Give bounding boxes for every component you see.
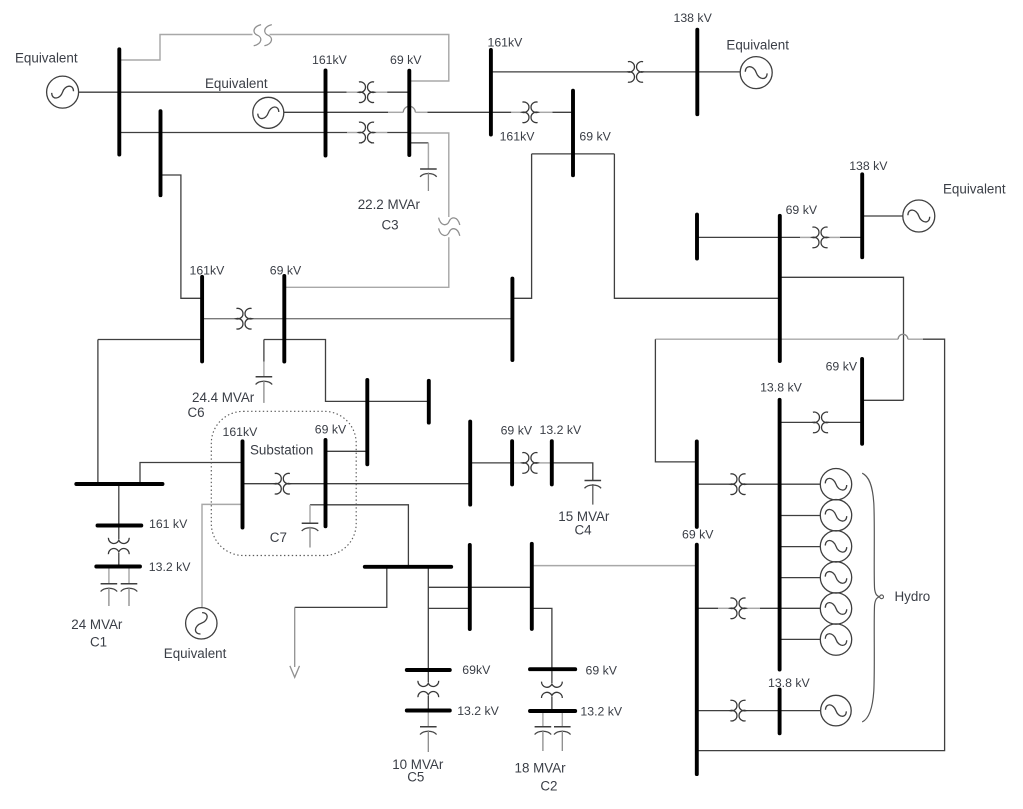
svg-text:C1: C1 <box>90 635 107 650</box>
svg-text:24 MVAr: 24 MVAr <box>71 617 123 632</box>
svg-text:C5: C5 <box>407 770 424 785</box>
svg-text:22.2 MVAr: 22.2 MVAr <box>358 197 421 212</box>
svg-text:69 kV: 69 kV <box>826 360 858 374</box>
svg-text:13.2 kV: 13.2 kV <box>149 560 191 574</box>
svg-text:69 kV: 69 kV <box>579 129 611 143</box>
svg-text:69 kV: 69 kV <box>315 423 347 437</box>
svg-text:69 kV: 69 kV <box>586 663 618 677</box>
svg-text:69 kV: 69 kV <box>682 528 714 542</box>
svg-text:Equivalent: Equivalent <box>15 50 78 65</box>
svg-text:161kV: 161kV <box>488 35 524 49</box>
svg-text:Hydro: Hydro <box>895 589 931 604</box>
svg-text:Substation: Substation <box>250 443 313 458</box>
svg-text:13.8 kV: 13.8 kV <box>768 676 810 690</box>
svg-text:13.2 kV: 13.2 kV <box>580 705 622 719</box>
svg-text:C3: C3 <box>382 218 399 233</box>
svg-text:C4: C4 <box>575 523 593 538</box>
svg-text:C7: C7 <box>270 530 287 545</box>
svg-text:161kV: 161kV <box>223 425 259 439</box>
svg-text:161kV: 161kV <box>500 129 536 143</box>
svg-text:138 kV: 138 kV <box>849 159 888 173</box>
svg-text:69 kV: 69 kV <box>390 53 422 67</box>
svg-text:69 kV: 69 kV <box>786 203 818 217</box>
svg-text:161kV: 161kV <box>312 53 348 67</box>
svg-text:C6: C6 <box>188 405 205 420</box>
svg-text:161kV: 161kV <box>190 263 226 277</box>
svg-text:13.2 kV: 13.2 kV <box>540 423 582 437</box>
svg-text:13.2 kV: 13.2 kV <box>457 704 499 718</box>
svg-text:C2: C2 <box>540 779 557 794</box>
svg-text:Equivalent: Equivalent <box>943 181 1006 196</box>
svg-text:18 MVAr: 18 MVAr <box>515 761 567 776</box>
svg-text:Equivalent: Equivalent <box>205 76 268 91</box>
svg-text:Equivalent: Equivalent <box>164 646 227 661</box>
svg-text:69 kV: 69 kV <box>501 424 533 438</box>
svg-text:13.8 kV: 13.8 kV <box>760 380 802 394</box>
svg-text:69 kV: 69 kV <box>270 263 302 277</box>
svg-text:Equivalent: Equivalent <box>726 38 789 53</box>
svg-text:138 kV: 138 kV <box>674 11 713 25</box>
svg-text:69kV: 69kV <box>462 663 491 677</box>
svg-text:24.4 MVAr: 24.4 MVAr <box>192 390 255 405</box>
svg-text:161 kV: 161 kV <box>149 517 188 531</box>
